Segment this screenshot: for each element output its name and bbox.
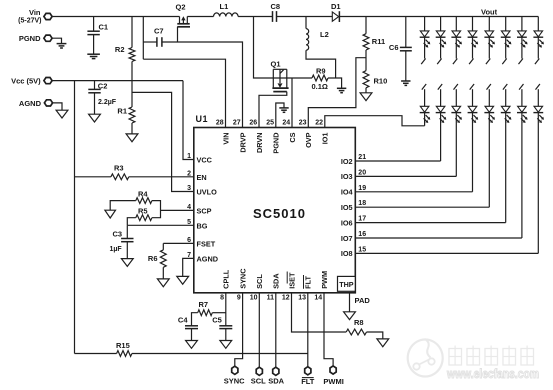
wire R10 bottom <box>365 88 367 93</box>
series continuation tick row1 col5 <box>486 59 490 65</box>
resistor R7 <box>198 310 213 316</box>
svg-text:C4: C4 <box>178 315 188 324</box>
svg-text:(5-27V): (5-27V) <box>18 17 41 24</box>
wire pin 5 BG <box>127 224 194 226</box>
wire IO5 route (pin 18 to LED col5) <box>355 206 489 208</box>
svg-text:L2: L2 <box>320 30 329 39</box>
svg-text:R1: R1 <box>117 107 127 116</box>
resistor R2 <box>129 48 135 62</box>
wire LED row2 col4 cathode drop <box>472 113 474 192</box>
series continuation tick row2 col4 <box>470 84 474 90</box>
capacitor C1 <box>87 30 99 32</box>
LED D17 string column 7 row 1 anode wire <box>521 17 523 31</box>
resistor R9 <box>312 75 328 81</box>
terminal FLT <box>305 367 311 375</box>
svg-text:R6: R6 <box>148 254 158 263</box>
wire LED row1 col1 cathode <box>424 37 426 58</box>
capacitor C8 <box>272 11 274 22</box>
svg-text:www.elecfans.com: www.elecfans.com <box>446 367 539 381</box>
wire R7 right to pin8 line <box>212 312 226 314</box>
LED row2 col1 <box>420 106 429 112</box>
wire L2 top stub <box>305 17 307 29</box>
watermark logo circle <box>408 339 443 376</box>
terminal Vin <box>44 13 52 19</box>
svg-text:23: 23 <box>299 120 307 127</box>
svg-text:SDA: SDA <box>268 376 284 385</box>
svg-text:3: 3 <box>187 185 191 192</box>
wire pin 9 SYNC to terminal <box>235 293 243 366</box>
LED row2 col4 <box>468 106 477 112</box>
capacitor C2 <box>88 88 100 90</box>
wire C5 bottom <box>225 329 227 341</box>
wire C3 bottom <box>126 242 128 259</box>
svg-text:VIN: VIN <box>221 133 230 145</box>
series continuation tick row2 col7 <box>519 84 523 90</box>
wire pin 7 AGND <box>183 258 194 276</box>
terminal SYNC <box>232 366 238 374</box>
wire pin 11 SDA to terminal <box>275 293 277 367</box>
wire VIN pin feed to pin 28 <box>143 59 225 127</box>
series continuation tick row1 col6 <box>502 59 506 65</box>
resistor R8 <box>346 329 366 335</box>
resistor R15 <box>117 351 132 357</box>
svg-text:THP: THP <box>339 280 354 289</box>
svg-text:PWM: PWM <box>320 271 329 289</box>
svg-text:22: 22 <box>315 120 323 127</box>
svg-text:15: 15 <box>358 246 366 253</box>
capacitor C4 <box>185 325 198 327</box>
wire PGND pin 25 hook <box>276 103 284 128</box>
wire Q1 channel to R9 <box>273 77 312 79</box>
wire R9 to ground <box>328 78 342 88</box>
wire C2 top stub <box>94 81 96 90</box>
LED D12 string column 2 row 1 anode wire <box>440 17 442 31</box>
svg-text:SYNC: SYNC <box>224 376 245 385</box>
LED D15 string column 5 row 1 anode wire <box>488 17 490 31</box>
wire LED row2 col8 anode <box>537 89 539 106</box>
svg-text:C1: C1 <box>99 23 109 32</box>
wire IO3 route (pin 20 to LED col3) <box>355 175 456 177</box>
resistor R1 <box>129 107 135 123</box>
ground R10 (triangle) <box>360 93 372 101</box>
wire LED row2 col7 cathode drop <box>521 113 523 238</box>
series continuation tick row1 col8 <box>535 59 539 65</box>
wire LED row2 col5 anode <box>488 89 490 106</box>
LED D14 string column 4 row 1 anode wire <box>472 17 474 31</box>
svg-text:R8: R8 <box>354 318 364 327</box>
wire LED row2 col2 cathode drop <box>440 113 442 161</box>
wire IO4 route (pin 19 to LED col4) <box>355 191 472 193</box>
svg-text:IO4: IO4 <box>341 188 354 197</box>
svg-text:IO3: IO3 <box>341 172 353 181</box>
terminal PWMI <box>330 366 336 374</box>
wire pin 1 VCC from Vcc rail <box>183 81 194 160</box>
resistor R11 <box>363 34 369 50</box>
wire LED row1 col7 cathode <box>521 37 523 58</box>
wire C3 top <box>126 225 128 238</box>
svg-text:R2: R2 <box>115 45 125 54</box>
wire R4 left to ground <box>110 201 136 211</box>
svg-text:D1: D1 <box>331 2 341 11</box>
series continuation tick row2 col1 <box>422 84 426 90</box>
svg-text:R11: R11 <box>372 37 385 46</box>
wire C2 bottom <box>94 93 96 114</box>
svg-text:C8: C8 <box>271 2 281 11</box>
svg-text:20: 20 <box>358 169 366 176</box>
LED row1 col8 <box>534 31 543 37</box>
svg-text:IO7: IO7 <box>341 234 353 243</box>
wire LED row1 col8 cathode <box>537 37 539 58</box>
series continuation tick row1 col3 <box>453 59 457 65</box>
resistor R6 <box>160 250 166 267</box>
wire C1 stub <box>93 17 95 32</box>
wire IO6 route (pin 17 to LED col6) <box>355 222 505 224</box>
svg-text:UVLO: UVLO <box>197 188 218 197</box>
svg-text:IO5: IO5 <box>341 203 353 212</box>
wire R3 to Vcc rail <box>75 176 111 178</box>
svg-text:BG: BG <box>197 221 208 230</box>
svg-text:PAD: PAD <box>355 296 371 305</box>
wire Vcc vertical rail <box>74 81 76 354</box>
terminal AGND <box>44 100 52 106</box>
wire pin 13 FLT to terminal <box>307 293 309 367</box>
svg-text:C2: C2 <box>98 82 108 91</box>
wire OVP tap to pin 23 <box>308 58 366 128</box>
ground pin7 AGND (triangle) <box>177 276 189 284</box>
svg-text:C5: C5 <box>212 315 222 324</box>
terminal PGND <box>44 35 52 41</box>
wire IO7 route (pin 16 to LED col7) <box>355 237 522 239</box>
svg-text:AGND: AGND <box>19 99 42 108</box>
svg-text:ISET: ISET <box>287 272 296 289</box>
pad THP box <box>338 276 356 291</box>
svg-text:Vcc (5V): Vcc (5V) <box>11 77 41 86</box>
terminal Vcc <box>44 78 52 84</box>
wire LED row1 col2 cathode <box>440 37 442 58</box>
svg-text:2.2µF: 2.2µF <box>98 99 117 106</box>
ground C3 (triangle) <box>121 259 133 267</box>
svg-text:11: 11 <box>267 295 275 302</box>
resistor R3 <box>111 174 129 180</box>
wire PAD stub <box>349 293 351 312</box>
series continuation tick row1 col1 <box>421 59 425 65</box>
LED row1 col6 <box>501 31 510 37</box>
svg-text:OVP: OVP <box>304 132 313 148</box>
wire R15 left feed <box>75 353 117 355</box>
svg-text:VCC: VCC <box>197 156 213 165</box>
LED row2 col2 <box>436 106 445 112</box>
svg-text:IO1: IO1 <box>321 133 330 145</box>
wire C6 bottom <box>405 51 407 81</box>
svg-text:C6: C6 <box>389 43 399 52</box>
overline FLT label <box>303 275 305 289</box>
wire rail L1 to C8 <box>238 16 272 18</box>
svg-text:13: 13 <box>298 295 306 302</box>
svg-text:CPLL: CPLL <box>222 269 231 289</box>
wire IO1 route (pin 22 to LED col1) <box>325 116 425 128</box>
svg-text:16: 16 <box>358 231 366 238</box>
svg-text:14: 14 <box>314 295 322 302</box>
svg-text:17: 17 <box>358 216 366 223</box>
capacitor C6 <box>400 46 412 48</box>
wire pin 2 EN via R3 line <box>129 176 194 178</box>
series continuation tick row2 col2 <box>438 84 442 90</box>
wire C6 top stub <box>405 17 407 48</box>
series continuation tick row1 col7 <box>519 59 523 65</box>
svg-text:9: 9 <box>237 295 241 302</box>
resistor R5 <box>136 215 152 221</box>
LED row2 col8 <box>534 106 543 112</box>
svg-text:Vout: Vout <box>481 8 498 17</box>
wire LED row2 col7 anode <box>521 89 523 106</box>
svg-text:28: 28 <box>216 120 224 127</box>
LED D18 string column 8 row 1 anode wire <box>537 17 539 31</box>
ground R9 (earth) <box>337 87 346 89</box>
svg-text:SC5010: SC5010 <box>253 206 306 221</box>
ground R4 (triangle) <box>105 210 116 218</box>
wire Q2 gate to DRVP line <box>177 27 179 42</box>
wire R4-R5 right junction to pin 4 <box>152 201 161 218</box>
wire C4 bottom <box>191 329 193 341</box>
wire pin 10 SCL to terminal <box>258 293 260 367</box>
svg-text:0.1Ω: 0.1Ω <box>312 82 328 91</box>
svg-text:Q2: Q2 <box>176 3 186 12</box>
svg-text:10: 10 <box>250 295 258 302</box>
resistor R10 <box>363 71 369 88</box>
wire LED row2 col6 cathode drop <box>505 113 507 223</box>
wire pin 12 ISET to R8 <box>292 293 347 332</box>
svg-text:IO8: IO8 <box>341 249 353 258</box>
svg-text:R7: R7 <box>199 300 209 309</box>
ground R6 (triangle) <box>157 279 169 287</box>
wire rail C8 to D1 <box>277 16 333 18</box>
wire R8 right <box>367 332 383 339</box>
wire R11-R10 junction <box>365 50 367 71</box>
inductor L1 <box>214 13 239 17</box>
svg-text:R15: R15 <box>116 341 130 350</box>
wire Vin rail (Vin terminal to Q2) <box>52 16 179 18</box>
svg-text:C7: C7 <box>154 27 164 36</box>
svg-text:8: 8 <box>220 295 224 302</box>
wire switch node drop <box>254 17 274 79</box>
wire L2 bottom to R9 node <box>306 50 336 78</box>
wire R5 left to BG node <box>127 218 136 226</box>
svg-text:IO6: IO6 <box>341 218 353 227</box>
svg-text:21: 21 <box>358 154 366 161</box>
terminal SDA <box>273 367 279 375</box>
LED row2 col7 <box>518 106 527 112</box>
wire Q1 gate to DRVN pin 26 <box>259 92 287 128</box>
capacitor C3 <box>121 238 133 240</box>
ground PGND pin (earth) <box>279 107 288 109</box>
wire R6 top <box>162 243 164 250</box>
LED row2 col5 <box>485 106 494 112</box>
series continuation tick row1 col4 <box>469 59 473 65</box>
LED row1 col4 <box>468 31 477 37</box>
wire LED row1 col5 cathode <box>488 37 490 58</box>
wire C7 to DRVP pin 27 <box>162 42 243 128</box>
resistor R4 <box>136 198 152 204</box>
svg-text:SYNC: SYNC <box>239 268 248 289</box>
wire LED row2 col3 cathode drop <box>455 113 457 177</box>
series continuation tick row1 col2 <box>437 59 441 65</box>
wire Vcc rail (terminal to pin1 drop) <box>52 80 183 82</box>
svg-text:PWMI: PWMI <box>323 377 343 386</box>
wire rail Q2 to L1 <box>187 16 213 18</box>
wire LED row2 col8 cathode drop <box>537 113 539 254</box>
svg-text:EN: EN <box>197 173 207 182</box>
ground C2 (triangle) <box>89 114 101 122</box>
svg-text:SCL: SCL <box>251 376 266 385</box>
svg-text:19: 19 <box>358 185 366 192</box>
LED row1 col2 <box>436 31 445 37</box>
LED row1 col7 <box>518 31 527 37</box>
svg-text:SCP: SCP <box>197 206 212 215</box>
svg-text:DRVP: DRVP <box>238 132 247 152</box>
ground R8 (triangle) <box>377 339 389 347</box>
wire LED row1 col3 cathode <box>455 37 457 58</box>
wire CS pin 24 to sense node <box>291 78 293 128</box>
LED row2 col3 <box>452 106 461 112</box>
wire VIN pin drop from rail <box>142 17 144 60</box>
wire pin 14 PWM to terminal <box>324 293 333 366</box>
svg-text:R10: R10 <box>374 77 388 86</box>
ground C5 (triangle) <box>220 341 232 349</box>
ground C4 (triangle) <box>186 341 198 349</box>
wire LED row2 col2 anode <box>440 89 442 106</box>
wire PGND terminal to ground <box>52 38 61 43</box>
ground C6 (earth) <box>401 80 410 82</box>
wire LED row1 col4 cathode <box>472 37 474 58</box>
inductor L2 <box>306 29 309 51</box>
watermark CJK text (approximated strokes) <box>449 349 462 366</box>
LED row1 col1 <box>420 31 429 37</box>
svg-text:FSET: FSET <box>197 239 216 248</box>
ground PAD (triangle) <box>344 312 356 320</box>
svg-text:Q1: Q1 <box>271 60 281 69</box>
wire IO8 route (pin 15 to LED col8) <box>355 252 538 254</box>
svg-text:R5: R5 <box>138 206 148 215</box>
svg-text:FLT: FLT <box>304 275 313 288</box>
wire R2-R1 junction segment <box>131 62 133 108</box>
wire LED row2 col4 anode <box>472 89 474 106</box>
series continuation tick row2 col8 <box>536 84 540 90</box>
svg-text:24: 24 <box>282 120 290 127</box>
wire IO2 route (pin 21 to LED col2) <box>355 160 440 162</box>
wire R11 top stub <box>365 17 367 34</box>
LED row1 col3 <box>452 31 461 37</box>
LED D13 string column 3 row 1 anode wire <box>455 17 457 31</box>
overline ISET label <box>286 272 288 284</box>
svg-text:R9: R9 <box>316 67 326 76</box>
LED row2 col6 <box>501 106 510 112</box>
wire LED row2 col3 anode <box>455 89 457 106</box>
wire LED row1 col6 cathode <box>505 37 507 58</box>
svg-text:DRVN: DRVN <box>255 133 264 154</box>
series continuation tick row2 col5 <box>487 84 491 90</box>
svg-text:IO2: IO2 <box>341 157 353 166</box>
svg-text:CS: CS <box>288 132 297 142</box>
ground AGND (triangle) <box>56 110 68 118</box>
svg-text:1µF: 1µF <box>110 246 123 253</box>
svg-text:PGND: PGND <box>19 34 41 43</box>
op-amp U1 IC body SC5010 <box>194 128 355 293</box>
wire R2 top stub <box>131 17 133 48</box>
wire R1 bottom <box>131 123 133 134</box>
series continuation tick row2 col6 <box>503 84 507 90</box>
svg-text:18: 18 <box>358 200 366 207</box>
ground C1 (earth) <box>87 53 100 55</box>
svg-text:R4: R4 <box>138 189 148 198</box>
capacitor C5 <box>219 325 232 327</box>
svg-text:PGND: PGND <box>272 133 281 154</box>
svg-text:R3: R3 <box>114 164 124 173</box>
wire R15 to FLT net <box>132 353 308 355</box>
svg-text:26: 26 <box>249 120 257 127</box>
svg-text:SDA: SDA <box>272 273 281 289</box>
ground PGND (earth) <box>57 43 67 45</box>
wire rail D1 to LEDs (Vout) <box>339 16 538 18</box>
wire pin 6 FSET <box>163 242 194 244</box>
wire R6 bottom <box>162 267 164 279</box>
wire LED row2 col1 cathode drop <box>424 113 426 126</box>
svg-text:25: 25 <box>266 120 274 127</box>
wire UVLO divider tap to pin 3 <box>132 92 194 191</box>
terminal SCL <box>256 367 262 375</box>
ground R1 (triangle) <box>126 134 138 142</box>
wire AGND terminal to ground <box>53 103 62 110</box>
wire LED row2 col5 cathode drop <box>488 113 490 208</box>
wire R7 left to C4 <box>192 313 198 326</box>
capacitor C7 <box>156 37 158 47</box>
wire pin 8 CPLL drop <box>225 293 227 326</box>
wire LED row2 col6 anode <box>505 89 507 106</box>
svg-text:AGND: AGND <box>197 254 219 263</box>
svg-text:L1: L1 <box>220 2 229 11</box>
wire C7 left lead <box>143 41 157 43</box>
LED D11 string column 1 row 1 anode wire <box>424 17 426 31</box>
svg-text:12: 12 <box>282 295 290 302</box>
svg-text:SCL: SCL <box>255 274 264 289</box>
LED row1 col5 <box>485 31 494 37</box>
LED D16 string column 6 row 1 anode wire <box>505 17 507 31</box>
series continuation tick row2 col3 <box>454 84 458 90</box>
svg-text:C3: C3 <box>113 230 123 239</box>
svg-text:U1: U1 <box>196 114 209 124</box>
svg-text:27: 27 <box>233 120 241 127</box>
svg-text:Vin: Vin <box>29 8 41 17</box>
wire LED row2 col1 anode <box>424 89 426 106</box>
